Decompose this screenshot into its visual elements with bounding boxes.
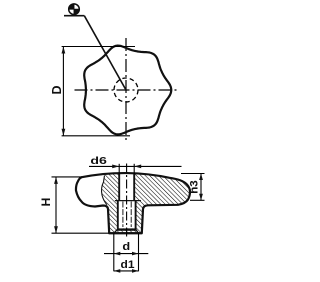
section centerline [126, 164, 128, 239]
center-of-mass symbol [68, 3, 80, 15]
d extension right [138, 234, 140, 272]
d1 arrow left [114, 269, 121, 273]
star knob outline (7 lobes) [84, 46, 171, 135]
H arrow down [54, 226, 58, 233]
chamfer right [136, 229, 139, 233]
D dimension line [62, 47, 64, 136]
d1 arrow right [132, 269, 139, 273]
d6 extension right [133, 164, 135, 174]
leader shelf line [64, 15, 84, 17]
hole bottom band [117, 228, 136, 230]
svg-text:d: d [122, 241, 130, 253]
leader diagonal to center [84, 16, 126, 90]
h3 arrow down [199, 194, 203, 201]
H dimension line [55, 177, 57, 233]
h3 extension bottom [190, 199, 205, 201]
h3 dimension line [200, 174, 202, 201]
hidden hole circle (dashed) [114, 78, 138, 102]
d6 arrow left [112, 165, 119, 169]
bore right wall [133, 174, 135, 201]
h3 extension top [181, 173, 205, 175]
D dimension extension line top [62, 46, 135, 48]
centerline horizontal (top view) [75, 89, 178, 91]
H extension top [52, 176, 82, 178]
section body hatched [76, 173, 190, 233]
hub bottom edge [109, 232, 143, 234]
d6 arrow right [134, 165, 141, 169]
D arrow down [62, 129, 66, 136]
svg-text:d6: d6 [90, 155, 107, 167]
d arrow left [114, 252, 121, 256]
d dimension line [104, 253, 148, 255]
d extension left [113, 234, 115, 272]
H extension bottom [52, 232, 109, 234]
svg-text:H: H [39, 198, 53, 207]
bore lower wall right [135, 201, 137, 229]
centerline vertical (top view) [125, 38, 127, 142]
chamfer left [114, 229, 118, 233]
svg-text:h3: h3 [189, 180, 201, 194]
thread line left [122, 202, 124, 228]
bore left wall [118, 174, 120, 201]
bore (white) [118, 174, 136, 229]
thread line right [130, 202, 132, 228]
unsectioned left lobe (white) [76, 175, 107, 206]
bore lower wall left [117, 201, 119, 229]
D arrow up [62, 47, 66, 54]
H arrow up [54, 177, 58, 184]
section outline [76, 173, 190, 233]
d arrow right [132, 252, 139, 256]
d6 extension left [118, 164, 120, 174]
d1 dimension line [114, 270, 139, 272]
h3 arrow up [199, 174, 203, 181]
bore step shoulder [115, 200, 141, 202]
d6 dimension line [89, 165, 182, 167]
lobe boundary line [102, 175, 108, 204]
D dimension extension line bottom [62, 135, 130, 137]
svg-text:d1: d1 [121, 259, 135, 271]
svg-text:D: D [50, 85, 64, 94]
